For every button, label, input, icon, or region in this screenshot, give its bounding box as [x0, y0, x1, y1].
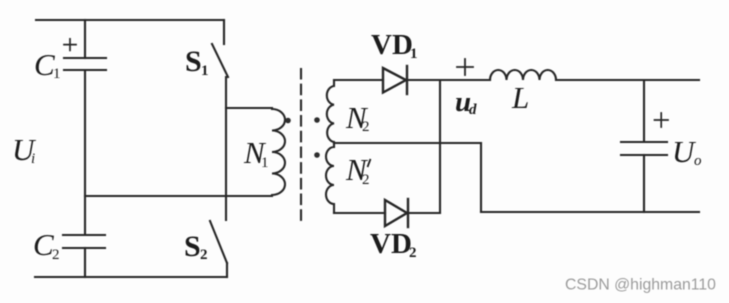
wire center tap	[334, 142, 481, 144]
wire S rail middle	[225, 77, 227, 220]
svg-text:VD: VD	[370, 228, 412, 260]
svg-text:2: 2	[362, 119, 370, 135]
wire bottom left	[35, 276, 227, 278]
winding N2'	[326, 144, 334, 213]
diode VD2	[385, 199, 408, 227]
wire bottom return	[481, 211, 699, 213]
switch S2	[210, 221, 227, 263]
wire primary top	[226, 107, 272, 109]
wire left rail lower	[84, 248, 86, 277]
wire rectifier output rail	[439, 80, 441, 213]
wire secondary top to VD1	[334, 79, 383, 81]
svg-text:1: 1	[201, 63, 209, 79]
wire output cap rail lower	[643, 155, 645, 212]
capacitor output	[621, 113, 668, 155]
inductor L	[490, 70, 556, 80]
svg-text:i: i	[31, 151, 35, 167]
capacitor C1	[64, 39, 106, 70]
wire VD1 cathode to node	[406, 79, 490, 81]
plus sign ud	[457, 59, 473, 75]
diode VD1	[383, 66, 407, 94]
wire midpoint to primary	[85, 195, 271, 197]
winding N1	[272, 108, 285, 196]
wire left rail middle	[84, 70, 86, 235]
svg-text:C: C	[34, 47, 55, 82]
svg-text:1: 1	[410, 46, 418, 62]
svg-text:S: S	[184, 230, 201, 263]
svg-text:VD: VD	[371, 29, 413, 61]
wire L to output	[556, 79, 699, 81]
switch S1	[212, 44, 228, 77]
svg-text:1: 1	[53, 66, 61, 82]
svg-text:L: L	[511, 80, 529, 115]
svg-text:C: C	[33, 227, 54, 262]
wire center tap step down	[480, 143, 482, 212]
winding N2	[327, 80, 334, 143]
svg-text:2: 2	[362, 172, 370, 188]
dot secondary N2 polarity	[314, 117, 320, 123]
transformer core	[300, 69, 302, 223]
wire S rail upper	[223, 20, 225, 44]
svg-text:o: o	[694, 153, 702, 169]
svg-text:d: d	[469, 102, 477, 118]
dot secondary N2' polarity	[314, 152, 320, 158]
wire S rail lower	[226, 263, 228, 277]
svg-text:2: 2	[200, 247, 208, 263]
dot primary polarity	[285, 118, 291, 124]
svg-text:2: 2	[409, 245, 417, 261]
svg-text:S: S	[185, 45, 202, 78]
wire output cap rail upper	[643, 80, 645, 142]
svg-text:CSDN @highman110: CSDN @highman110	[565, 277, 716, 294]
wire left rail upper	[84, 20, 86, 58]
svg-text:2: 2	[52, 247, 60, 263]
capacitor C2	[63, 235, 105, 248]
svg-text:1: 1	[261, 155, 269, 171]
wire VD2 cathode to rail	[408, 212, 440, 214]
wire top left	[36, 19, 224, 21]
wire N2' bottom to VD2	[334, 212, 385, 214]
